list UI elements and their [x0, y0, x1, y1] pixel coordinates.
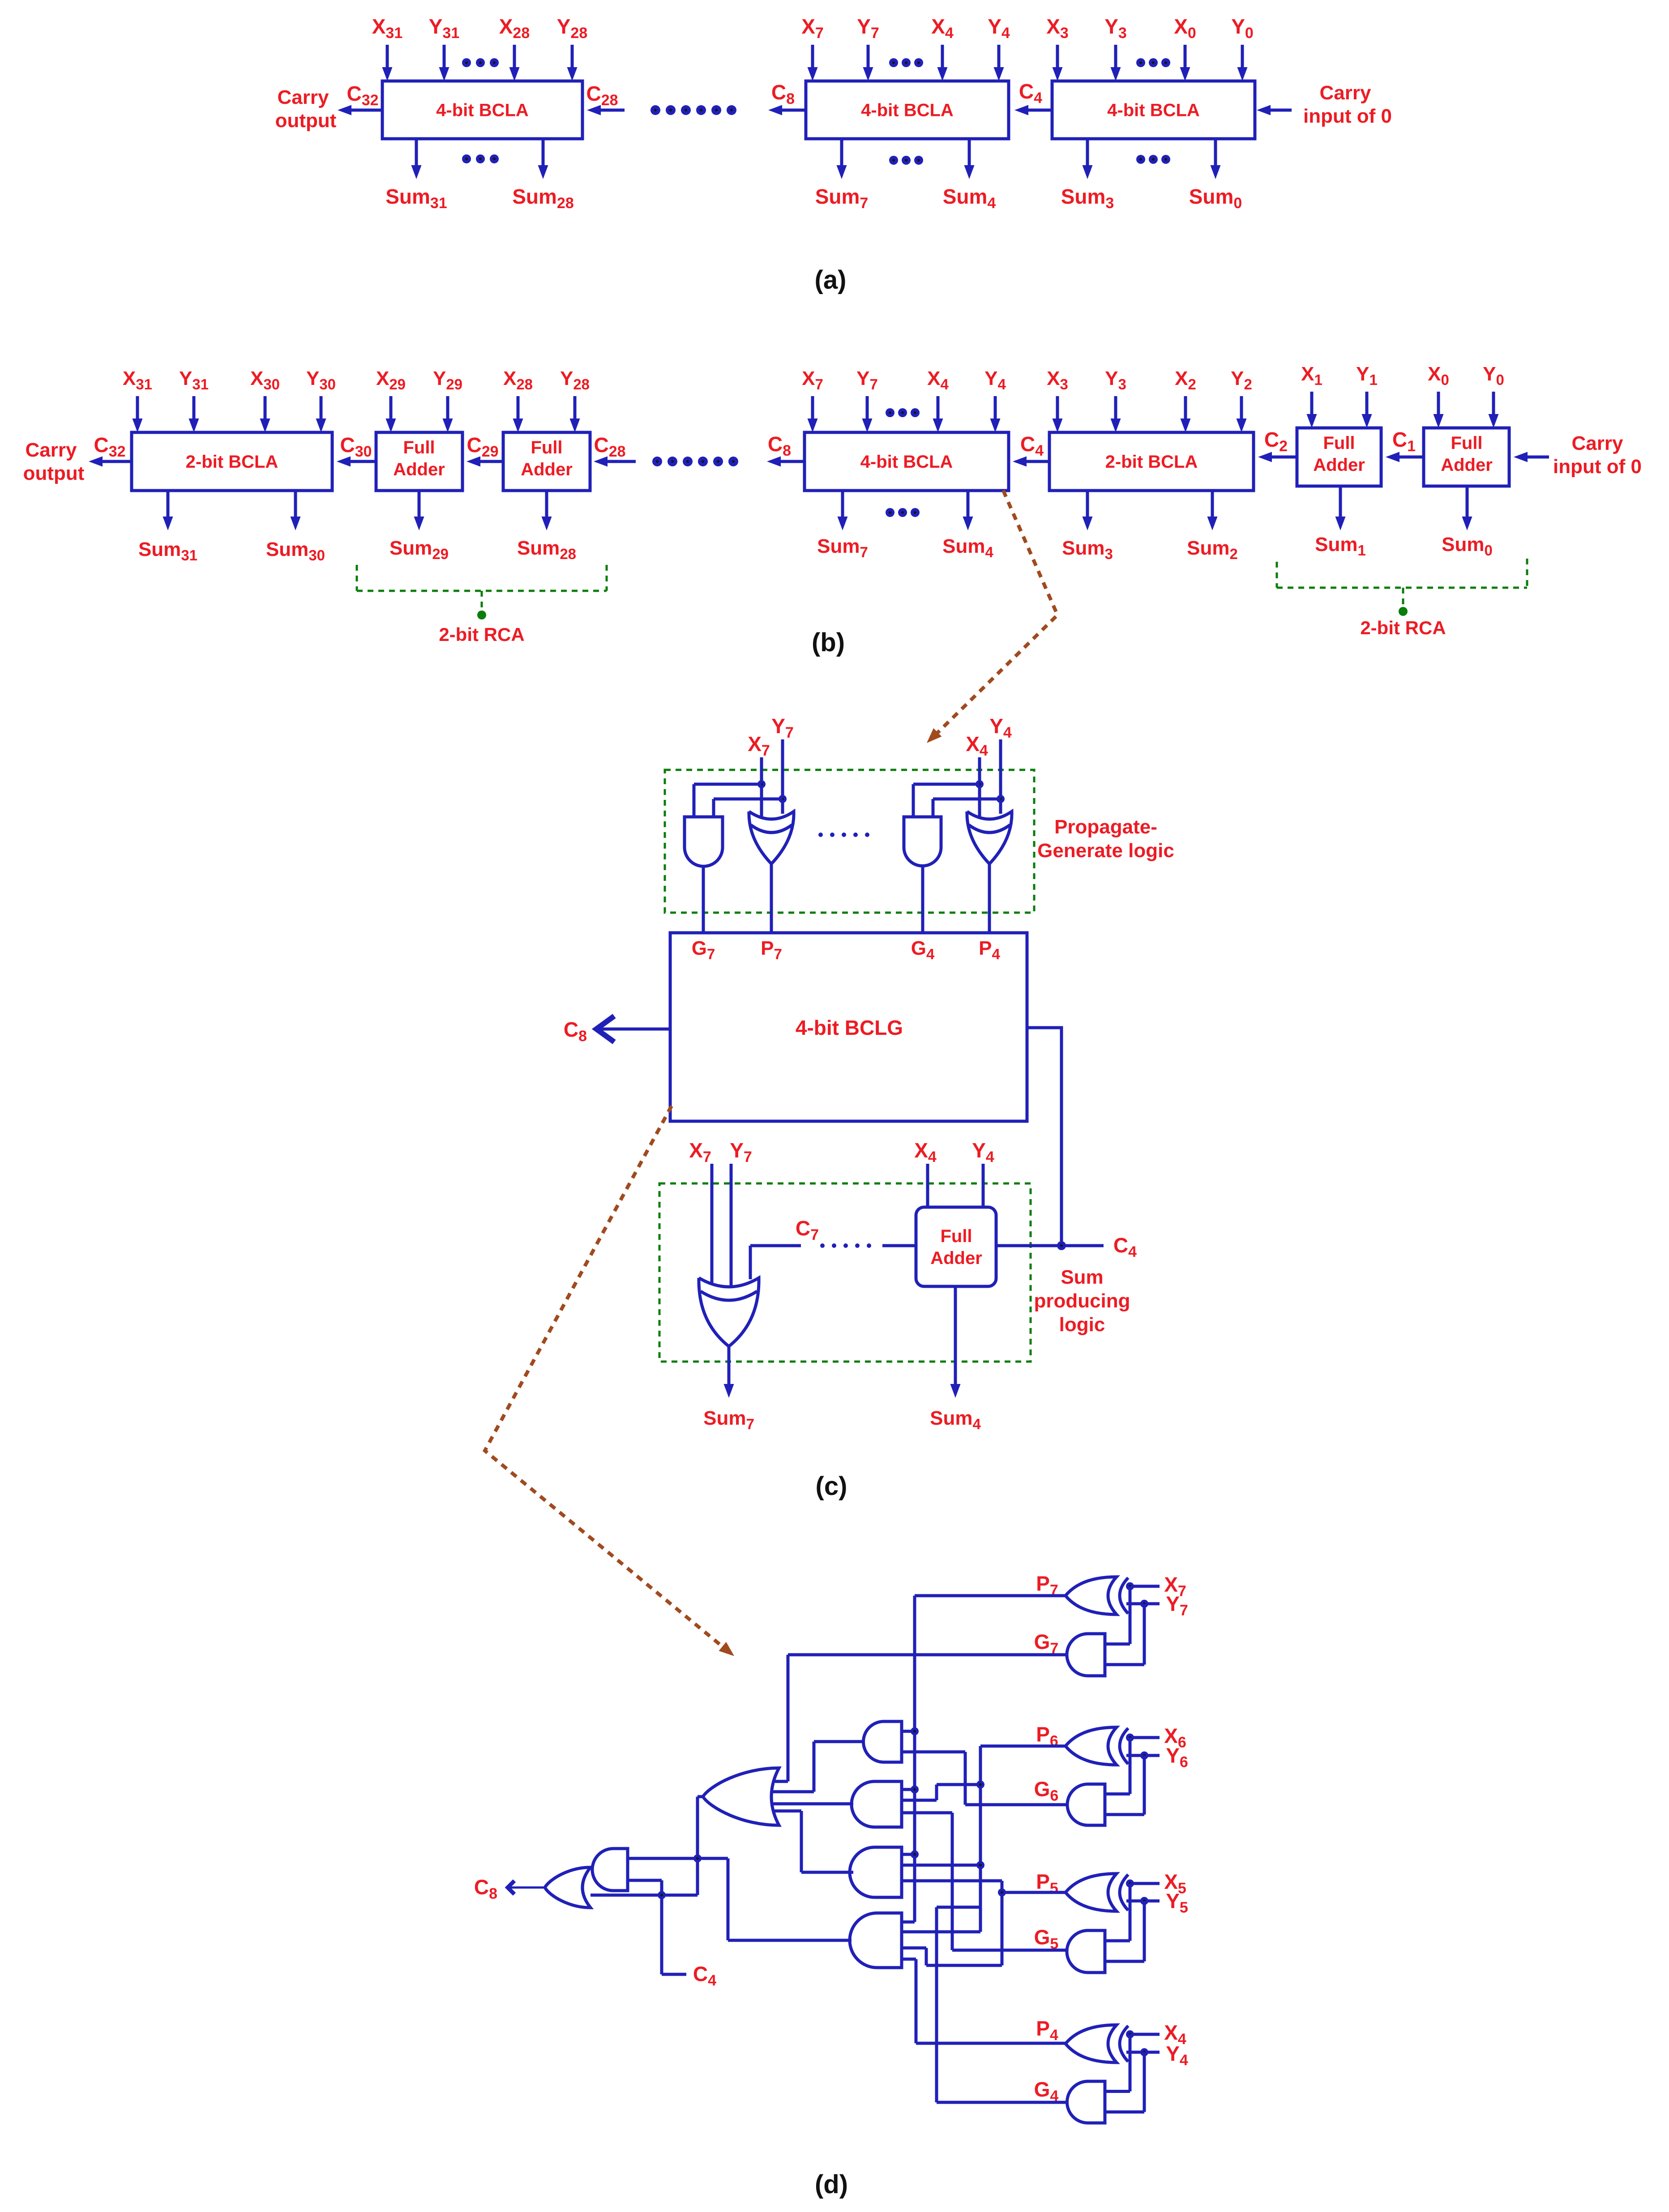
svg-text:(c): (c)	[816, 1472, 847, 1501]
svg-text:Full: Full	[1451, 433, 1482, 453]
svg-text:Full: Full	[940, 1226, 972, 1246]
svg-text:input of 0: input of 0	[1303, 105, 1392, 127]
svg-text:Adder: Adder	[930, 1248, 982, 1268]
svg-text:(b): (b)	[812, 628, 845, 657]
svg-text:producing: producing	[1034, 1290, 1130, 1312]
svg-text:(d): (d)	[815, 2170, 848, 2199]
svg-text:Sum: Sum	[1061, 1266, 1103, 1288]
svg-text:4-bit BCLA: 4-bit BCLA	[861, 101, 954, 120]
svg-text:4-bit BCLA: 4-bit BCLA	[1107, 101, 1200, 120]
svg-text:Full: Full	[531, 438, 562, 457]
svg-text:2-bit BCLA: 2-bit BCLA	[186, 452, 278, 472]
svg-text:output: output	[23, 462, 85, 484]
svg-text:Carry: Carry	[1320, 82, 1371, 104]
svg-text:logic: logic	[1059, 1314, 1105, 1336]
svg-text:4-bit BCLA: 4-bit BCLA	[436, 101, 529, 120]
svg-text:output: output	[275, 110, 337, 132]
svg-text:Propagate-: Propagate-	[1054, 816, 1157, 838]
svg-text:2-bit BCLA: 2-bit BCLA	[1105, 452, 1198, 472]
svg-text:Adder: Adder	[521, 460, 573, 479]
svg-text:Carry: Carry	[1572, 432, 1623, 454]
svg-text:2-bit RCA: 2-bit RCA	[439, 624, 524, 645]
svg-text:Adder: Adder	[1313, 455, 1365, 475]
svg-text:Carry: Carry	[26, 439, 77, 461]
svg-text:Full: Full	[403, 438, 435, 457]
svg-text:Generate logic: Generate logic	[1037, 840, 1174, 862]
svg-text:Full: Full	[1323, 433, 1355, 453]
svg-text:Adder: Adder	[1441, 455, 1493, 475]
svg-text:4-bit BCLG: 4-bit BCLG	[796, 1016, 903, 1039]
svg-text:input of 0: input of 0	[1553, 456, 1642, 478]
svg-text:Carry: Carry	[278, 86, 329, 108]
svg-text:4-bit BCLA: 4-bit BCLA	[860, 452, 953, 472]
svg-text:2-bit RCA: 2-bit RCA	[1360, 617, 1446, 638]
svg-text:Adder: Adder	[393, 460, 445, 479]
svg-text:(a): (a)	[815, 265, 847, 295]
